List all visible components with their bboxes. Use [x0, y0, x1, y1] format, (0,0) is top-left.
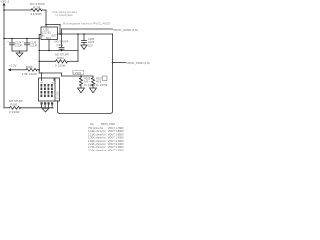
svg-text:3.32K ohms for: 3.32K ohms for	[88, 148, 106, 151]
svg-text:0 1/10W: 0 1/10W	[55, 63, 66, 67]
svg-text:0 1/10W: 0 1/10W	[31, 12, 42, 16]
svg-text:LV302: LV302	[74, 71, 82, 75]
svg-text:+: +	[7, 40, 9, 43]
svg-text:2.2UF: 2.2UF	[15, 43, 22, 47]
svg-text:Run separate trace for PROC_AV: Run separate trace for PROC_AVDD	[63, 22, 110, 26]
svg-text:LT1763: LT1763	[57, 91, 59, 99]
svg-text:V3P3_S: V3P3_S	[1, 0, 10, 3]
svg-text:1.8K 1/10W: 1.8K 1/10W	[22, 72, 37, 76]
svg-text:IN: IN	[42, 34, 45, 38]
svg-text:FL 1/10W: FL 1/10W	[96, 83, 108, 87]
svg-text:Adj: Adj	[90, 123, 94, 126]
svg-text:OUT: OUT	[51, 34, 57, 38]
svg-text:10V: 10V	[88, 43, 93, 47]
svg-text:R306: R306	[26, 65, 33, 69]
svg-text:by netted plane: by netted plane	[56, 14, 74, 17]
svg-text:+: +	[22, 40, 24, 43]
svg-text:VOUT 2.500V: VOUT 2.500V	[108, 148, 124, 151]
svg-text:R304: R304	[57, 56, 64, 60]
svg-text:2.2UF: 2.2UF	[30, 43, 37, 47]
svg-text:+1.2V: +1.2V	[9, 64, 17, 68]
svg-text:PROC_AVDD (2,N): PROC_AVDD (2,N)	[114, 28, 138, 32]
svg-text:C302: C302	[57, 43, 64, 47]
svg-text:R120: R120	[11, 102, 18, 106]
svg-text:PROC_PWR (2,N): PROC_PWR (2,N)	[127, 61, 150, 65]
svg-text:PROC_PWR: PROC_PWR	[101, 123, 115, 126]
svg-text:R128: R128	[33, 5, 41, 9]
svg-text:0 1/10W: 0 1/10W	[9, 110, 20, 114]
